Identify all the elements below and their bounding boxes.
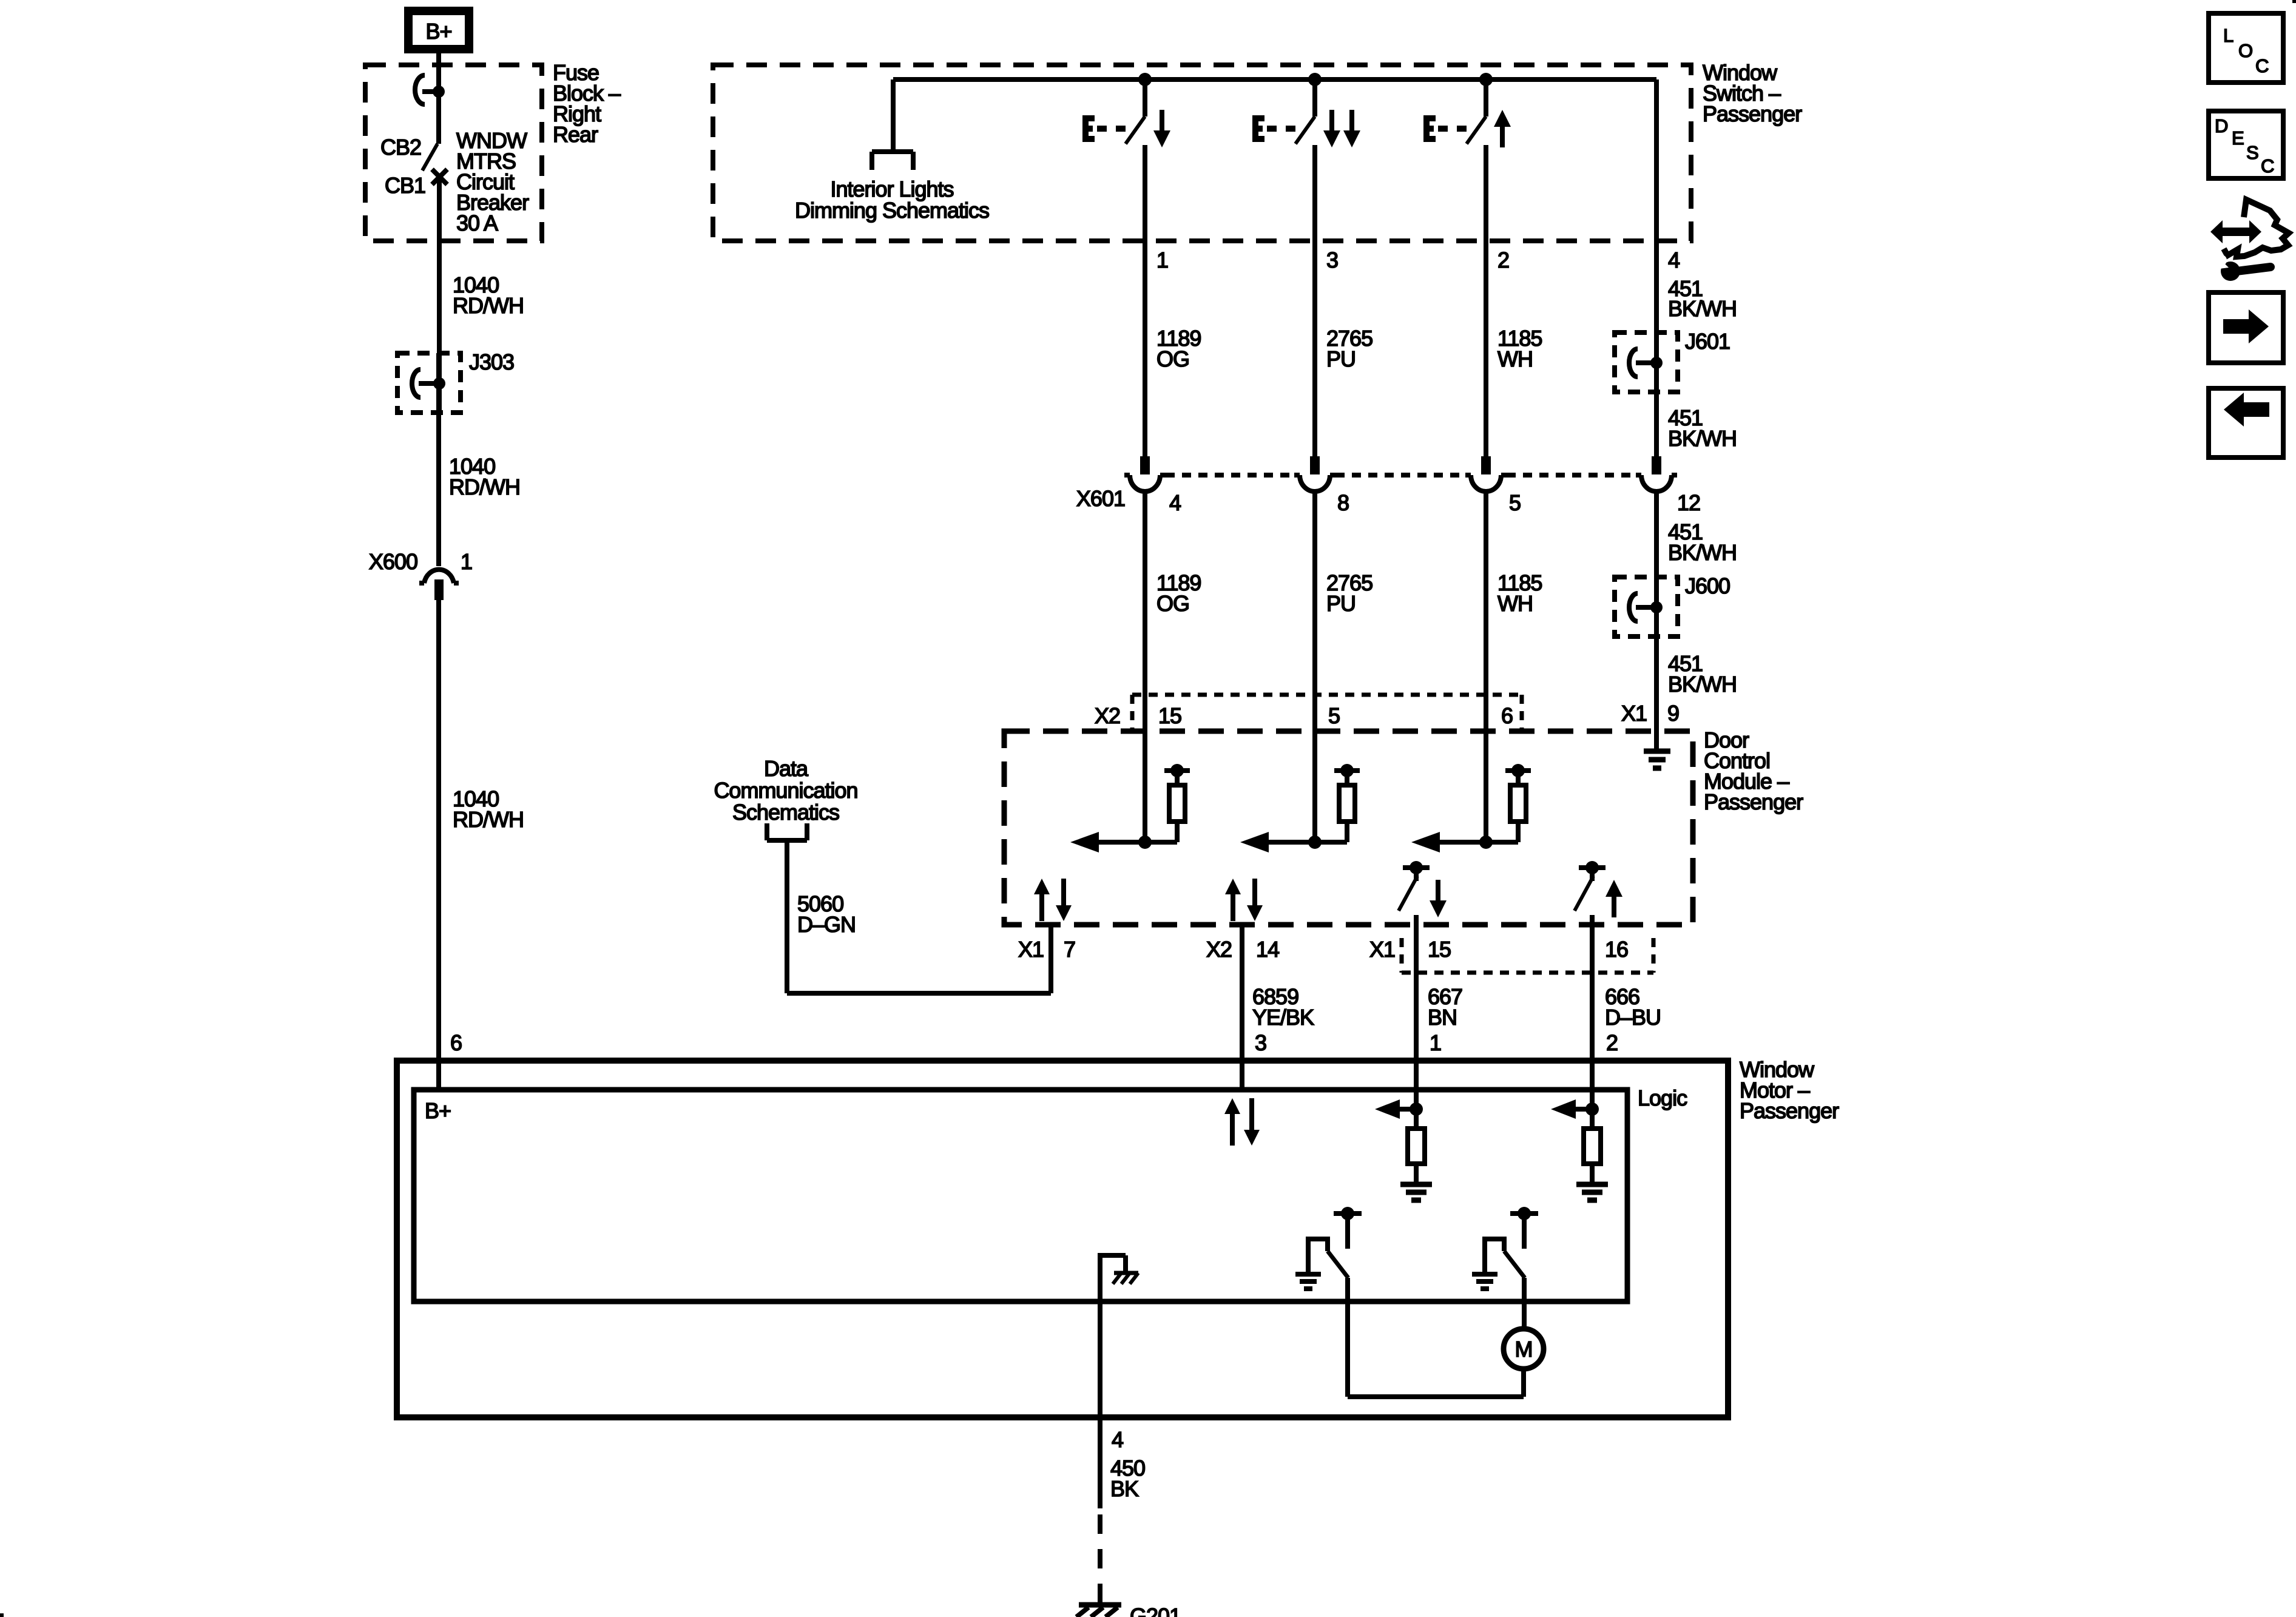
svg-text:6: 6 — [1501, 703, 1513, 728]
svg-text:X2: X2 — [1095, 703, 1120, 728]
DCM X2 label (pin 14) — [1206, 937, 1232, 962]
svg-text:B+: B+ — [425, 1098, 451, 1123]
pin 4 label — [1668, 248, 1680, 272]
X601 pin 12 label — [1677, 490, 1700, 515]
svg-text:RD/WH: RD/WH — [453, 293, 524, 318]
DCM input sense resistor/arrow (pin 6) — [1411, 764, 1531, 852]
svg-text:Communication: Communication — [714, 778, 857, 803]
DCM output switch (pin 15 down) — [1399, 861, 1447, 925]
svg-text:Data: Data — [764, 756, 809, 781]
wire label 667 BN — [1428, 984, 1462, 1030]
svg-text:X2: X2 — [1206, 937, 1232, 962]
connector X600 (female arc / male stub) — [419, 570, 459, 600]
motor pin 3 label — [1255, 1030, 1266, 1055]
DCM up/down arrows (pin 14) — [1225, 879, 1263, 921]
svg-text:WH: WH — [1497, 346, 1533, 371]
svg-text:Passenger: Passenger — [1704, 789, 1803, 814]
DCM X2 pin 6 label — [1501, 703, 1513, 728]
icon DESC (description link) — [2209, 111, 2283, 178]
DCM output switch (pin 16 up) — [1575, 861, 1622, 925]
svg-text:14: 14 — [1256, 937, 1279, 962]
circuit breaker CB1/CB2 (WNDW MTRS Circuit Breaker 30 A) — [415, 75, 447, 184]
window motor box (Window Motor - Passenger) — [397, 1061, 1728, 1417]
wire label 1185 WH (2) — [1497, 570, 1542, 616]
circuit breaker value label — [456, 128, 529, 235]
wire label 666 D-BU — [1605, 984, 1661, 1030]
logic pull resistor to ground (pin 1) — [1375, 1099, 1432, 1200]
motor reversing switch (right) — [1472, 1207, 1538, 1329]
svg-text:OG: OG — [1156, 591, 1189, 616]
svg-text:X1: X1 — [1018, 937, 1044, 962]
motor pin 1 label — [1430, 1030, 1441, 1055]
wire motor pin 4 to G201 (450 BK) — [1098, 1417, 1102, 1602]
door control module label — [1704, 727, 1803, 814]
wire label 451 BK/WH (4) — [1668, 651, 1737, 697]
DCM input sense resistor/arrow (pin 5) — [1240, 764, 1360, 852]
wire label 5060 D-GN — [797, 891, 856, 937]
wire label 2765 PU (1) — [1326, 326, 1373, 371]
svg-text:5: 5 — [1328, 703, 1340, 728]
svg-text:L: L — [2223, 25, 2234, 46]
window switch UP switch (pin 2) — [1423, 73, 1511, 147]
svg-text:16: 16 — [1605, 937, 1628, 962]
svg-text:CB2: CB2 — [380, 135, 421, 160]
DCM input sense resistor/arrow (pin 15) — [1070, 764, 1190, 852]
wire label 451 BK/WH (3) — [1668, 519, 1737, 565]
svg-text:X1: X1 — [1621, 701, 1647, 726]
wire label 450 BK — [1110, 1456, 1145, 1501]
icon hand with double arrow and wrench (service info) — [2210, 200, 2289, 281]
svg-text:E: E — [2232, 127, 2244, 149]
wire B+ to fuse block — [436, 53, 441, 68]
wire switch2 to X601 pin 8 — [1312, 145, 1317, 456]
window switch EXPRESS-DOWN switch (pin 3) — [1252, 73, 1360, 147]
wire label 1189 OG (1) — [1156, 326, 1201, 371]
DCM X2 label — [1095, 703, 1120, 728]
wire below circuit breaker — [437, 180, 442, 413]
pin 3 label — [1326, 248, 1338, 272]
ground inside DCM at pin 9 — [1644, 731, 1670, 768]
wire X601-8 to DCM X2-5 — [1312, 491, 1317, 842]
X601 pin 5 label — [1509, 490, 1521, 515]
motor pin 2 label — [1606, 1030, 1618, 1055]
svg-text:12: 12 — [1677, 490, 1700, 515]
svg-text:PU: PU — [1326, 346, 1356, 371]
svg-text:D: D — [2215, 115, 2227, 137]
interior lights dimming schematics bracket — [872, 152, 913, 170]
DCM X1 label (pin 7) — [1018, 937, 1044, 962]
logic up/down arrows (pin 3 input) — [1224, 1098, 1260, 1146]
svg-text:D–GN: D–GN — [797, 912, 856, 937]
svg-text:OG: OG — [1156, 346, 1189, 371]
svg-text:3: 3 — [1255, 1030, 1266, 1055]
svg-text:D–BU: D–BU — [1605, 1005, 1661, 1030]
svg-text:RD/WH: RD/WH — [453, 807, 524, 832]
svg-text:G201: G201 — [1130, 1604, 1181, 1617]
svg-text:M: M — [1515, 1337, 1533, 1362]
label B+ inside logic — [425, 1098, 451, 1123]
logic box — [414, 1090, 1627, 1301]
page corner mark top-right — [2292, 0, 2296, 3]
data communication schematics label — [714, 756, 857, 825]
internal chassis ground (motor case to pin 4) — [1100, 1253, 1138, 1417]
icon next arrow (right) — [2209, 292, 2283, 363]
DCM X1 dotted bracket (pins 15/16) — [1402, 938, 1653, 973]
icon LOC (location link) — [2209, 13, 2283, 83]
svg-text:CB1: CB1 — [385, 173, 425, 198]
svg-text:Schematics: Schematics — [732, 800, 839, 825]
svg-text:4: 4 — [1169, 490, 1181, 515]
DCM X1 pin 7 label — [1064, 937, 1075, 962]
svg-text:15: 15 — [1428, 937, 1451, 962]
svg-text:9: 9 — [1667, 701, 1679, 726]
DCM X1 pin 15 label — [1428, 937, 1451, 962]
connector X601 terminal pin 12 — [1636, 456, 1677, 491]
DCM X2 pin 15 label — [1158, 703, 1181, 728]
svg-text:X1: X1 — [1369, 937, 1395, 962]
window switch DOWN switch (pin 1) — [1082, 73, 1170, 147]
svg-text:YE/BK: YE/BK — [1252, 1005, 1314, 1030]
svg-text:15: 15 — [1158, 703, 1181, 728]
svg-text:C: C — [2255, 55, 2269, 76]
svg-text:30 A: 30 A — [456, 211, 498, 235]
bus wire inside window switch — [893, 79, 1656, 152]
ground G201 label — [1130, 1604, 1181, 1617]
wire motor loop — [1348, 1369, 1524, 1397]
wire X601-4 to DCM X2-15 — [1143, 491, 1147, 842]
svg-text:C: C — [2261, 155, 2274, 177]
DCM X2 pin 14 label — [1256, 937, 1279, 962]
svg-text:1: 1 — [461, 549, 472, 574]
wire label 1040 RD/WH (2) — [449, 454, 520, 499]
splice J600 — [1615, 573, 1730, 636]
label CB2 — [380, 135, 421, 160]
label CB1 — [385, 173, 425, 198]
logic label — [1638, 1085, 1687, 1110]
DCM X1 label (pin 15) — [1369, 937, 1395, 962]
wire label 2765 PU (2) — [1326, 570, 1373, 616]
svg-text:8: 8 — [1337, 490, 1349, 515]
power symbol B+ (battery feed) — [408, 11, 469, 49]
wire J303 to X600 — [436, 353, 441, 566]
wire DCM X2-14 to motor pin 3 (6859 YE/BK) — [1240, 925, 1244, 1090]
svg-text:BK/WH: BK/WH — [1668, 426, 1737, 451]
ground G201 — [1076, 1605, 1121, 1617]
svg-text:Passenger: Passenger — [1740, 1098, 1839, 1123]
svg-text:6: 6 — [450, 1030, 462, 1055]
svg-text:1: 1 — [1430, 1030, 1441, 1055]
svg-text:2: 2 — [1497, 248, 1509, 272]
connector X601 label — [1076, 486, 1125, 511]
svg-text:Dimming Schematics: Dimming Schematics — [795, 198, 989, 223]
X601 pin 4 label — [1169, 490, 1181, 515]
connector X601 dotted separator — [1166, 473, 1641, 478]
wire label 1040 RD/WH (1) — [453, 272, 524, 318]
window motor pin 6 label — [450, 1030, 462, 1055]
window switch box (Window Switch - Passenger) — [713, 65, 1691, 241]
interior lights dimming schematics label — [795, 177, 989, 223]
DCM up/down arrows (pin 7 serial data) — [1034, 879, 1072, 921]
svg-text:BK/WH: BK/WH — [1668, 672, 1737, 697]
wire label 6859 YE/BK — [1252, 984, 1314, 1030]
motor pin 4 label — [1112, 1427, 1123, 1452]
svg-text:X601: X601 — [1076, 486, 1125, 511]
connector X601 terminal pin 5 — [1465, 456, 1507, 491]
wire 5060 D-GN data comm to DCM X1-7 — [787, 840, 1051, 993]
window switch label — [1703, 60, 1802, 126]
DCM X1 pin 16 label — [1605, 937, 1628, 962]
svg-text:1: 1 — [1156, 248, 1168, 272]
svg-text:PU: PU — [1326, 591, 1356, 616]
svg-text:J600: J600 — [1685, 573, 1730, 598]
wire label 451 BK/WH (2) — [1668, 405, 1737, 451]
connector X600 pin 1 label — [461, 549, 472, 574]
pin 1 label — [1156, 248, 1168, 272]
DCM connector X2 dotted bracket — [1132, 695, 1522, 731]
fuse block box (Fuse Block - Right Rear) — [365, 65, 542, 241]
connector X601 terminal pin 8 — [1294, 456, 1335, 491]
fuse block label — [553, 60, 621, 147]
wire pin 4 to X601 pin 12 (451 BK/WH) — [1654, 79, 1659, 456]
wire label 451 BK/WH (1) — [1668, 276, 1737, 321]
window motor label — [1740, 1057, 1839, 1123]
motor reversing switch (left) — [1295, 1207, 1362, 1397]
svg-text:BK/WH: BK/WH — [1668, 540, 1737, 565]
wire label 1189 OG (2) — [1156, 570, 1201, 616]
svg-text:RD/WH: RD/WH — [449, 474, 520, 499]
splice J601 — [1615, 329, 1730, 392]
svg-text:S: S — [2246, 142, 2258, 163]
svg-text:BK/WH: BK/WH — [1668, 296, 1737, 321]
svg-text:J303: J303 — [469, 349, 514, 374]
wire into circuit breaker — [436, 65, 441, 99]
svg-text:7: 7 — [1064, 937, 1075, 962]
svg-text:B+: B+ — [425, 19, 451, 44]
DCM X1 label (pin 9) — [1621, 701, 1647, 726]
splice J303 — [397, 349, 514, 413]
connector X601 terminal pin 4 — [1124, 456, 1166, 491]
DCM X1 pin 9 label — [1667, 701, 1679, 726]
motor M1 (window motor) — [1504, 1329, 1544, 1369]
door control module box (Door Control Module - Passenger) — [1004, 731, 1693, 925]
wire switch3 to X601 pin 5 — [1484, 145, 1488, 456]
wire label 1185 WH (1) — [1497, 326, 1542, 371]
wire DCM X1-15 to motor pin 1 (667 BN) — [1414, 925, 1419, 1109]
page corner mark bottom-left — [0, 1613, 4, 1617]
wire label 1040 RD/WH (3) — [453, 786, 524, 832]
svg-text:X600: X600 — [369, 549, 417, 574]
svg-text:BK: BK — [1110, 1476, 1139, 1501]
wire DCM X1-16 to motor pin 2 (666 D-BU) — [1590, 925, 1595, 1109]
DCM X2 pin 5 label — [1328, 703, 1340, 728]
wire X601-12 to J600 — [1654, 491, 1659, 731]
svg-text:3: 3 — [1326, 248, 1338, 272]
wire X601-5 to DCM X2-6 — [1484, 491, 1488, 842]
svg-text:O: O — [2238, 40, 2252, 61]
svg-text:5: 5 — [1509, 490, 1521, 515]
svg-text:4: 4 — [1668, 248, 1680, 272]
svg-text:Logic: Logic — [1638, 1085, 1687, 1110]
connector X600 label — [369, 549, 417, 574]
X601 pin 8 label — [1337, 490, 1349, 515]
svg-text:WH: WH — [1497, 591, 1533, 616]
svg-text:J601: J601 — [1685, 329, 1730, 354]
pin 2 label — [1497, 248, 1509, 272]
logic pull resistor to ground (pin 2) — [1551, 1099, 1608, 1200]
icon back arrow (left) — [2209, 388, 2283, 457]
data communication schematics bracket — [767, 823, 807, 840]
svg-text:4: 4 — [1112, 1427, 1123, 1452]
wire X600 to window motor B+ input — [436, 600, 441, 1090]
svg-text:Rear: Rear — [553, 122, 598, 147]
wire switch1 to X601 pin 4 — [1143, 145, 1147, 456]
svg-text:Passenger: Passenger — [1703, 101, 1802, 126]
svg-text:2: 2 — [1606, 1030, 1618, 1055]
svg-text:BN: BN — [1428, 1005, 1457, 1030]
